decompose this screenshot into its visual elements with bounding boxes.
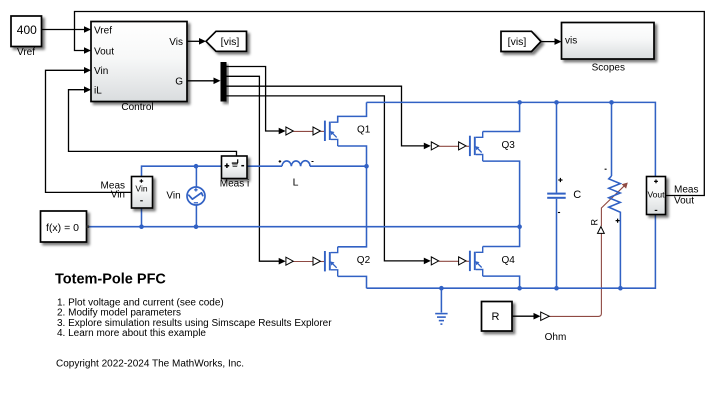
svg-text:400: 400 (17, 23, 37, 37)
svg-text:R: R (589, 219, 599, 226)
svg-text:Meas i: Meas i (220, 179, 249, 190)
svg-text:Scopes: Scopes (592, 63, 625, 74)
svg-text:Copyright 2022-2024 The MathWo: Copyright 2022-2024 The MathWorks, Inc. (56, 359, 244, 370)
svg-text:Q3: Q3 (502, 140, 516, 151)
svg-text:Q2: Q2 (357, 255, 371, 266)
svg-text:Vref: Vref (17, 47, 35, 58)
svg-text:Vin: Vin (166, 190, 180, 201)
svg-text:Vref: Vref (94, 25, 112, 36)
svg-text:Vout: Vout (647, 190, 665, 200)
svg-text:vis: vis (565, 35, 577, 46)
svg-text:[vis]: [vis] (508, 36, 527, 48)
svg-text:Q4: Q4 (502, 255, 516, 266)
svg-text:Ohm: Ohm (545, 332, 567, 343)
svg-text:Vin: Vin (94, 66, 108, 77)
svg-text:Vout: Vout (674, 196, 694, 207)
svg-text:Control: Control (121, 102, 153, 113)
svg-text:Vin: Vin (111, 190, 125, 201)
svg-text:Vis: Vis (169, 37, 183, 48)
svg-text:f(x) = 0: f(x) = 0 (46, 222, 79, 234)
svg-text:C: C (573, 189, 581, 201)
svg-text:G: G (175, 76, 183, 87)
svg-text:L: L (293, 177, 299, 189)
svg-text:4. Learn more about this examp: 4. Learn more about this example (57, 328, 206, 339)
svg-text:[vis]: [vis] (221, 36, 240, 48)
svg-text:Vin: Vin (135, 184, 147, 194)
svg-text:Meas: Meas (674, 184, 698, 195)
svg-text:Totem-Pole PFC: Totem-Pole PFC (55, 272, 166, 288)
svg-text:iL: iL (94, 85, 102, 96)
svg-text:R: R (492, 311, 500, 323)
svg-text:Q1: Q1 (357, 125, 371, 136)
svg-text:Vout: Vout (94, 47, 114, 58)
